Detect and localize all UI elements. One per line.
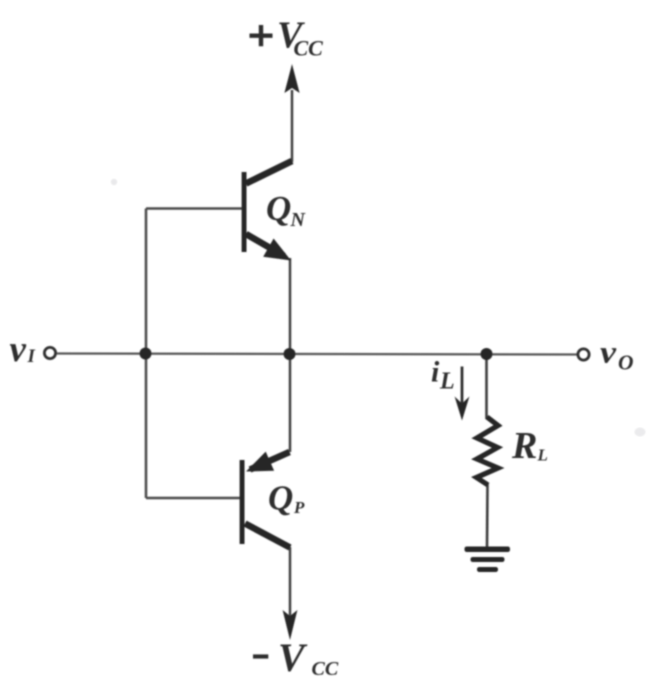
svg-text:P: P [293,498,305,517]
svg-text:CC: CC [294,36,324,61]
svg-text:O: O [618,351,634,375]
svg-text:CC: CC [312,658,339,680]
svg-text:i: i [431,356,440,389]
svg-text:V: V [278,635,308,680]
svg-text:L: L [537,446,548,465]
svg-text:R: R [511,425,537,467]
svg-text:N: N [290,209,307,231]
svg-text:v: v [10,329,27,370]
svg-text:I: I [27,346,36,367]
svg-text:Q: Q [268,479,293,518]
svg-text:L: L [439,369,455,395]
svg-text:v: v [600,335,617,370]
svg-text:Q: Q [266,189,291,228]
